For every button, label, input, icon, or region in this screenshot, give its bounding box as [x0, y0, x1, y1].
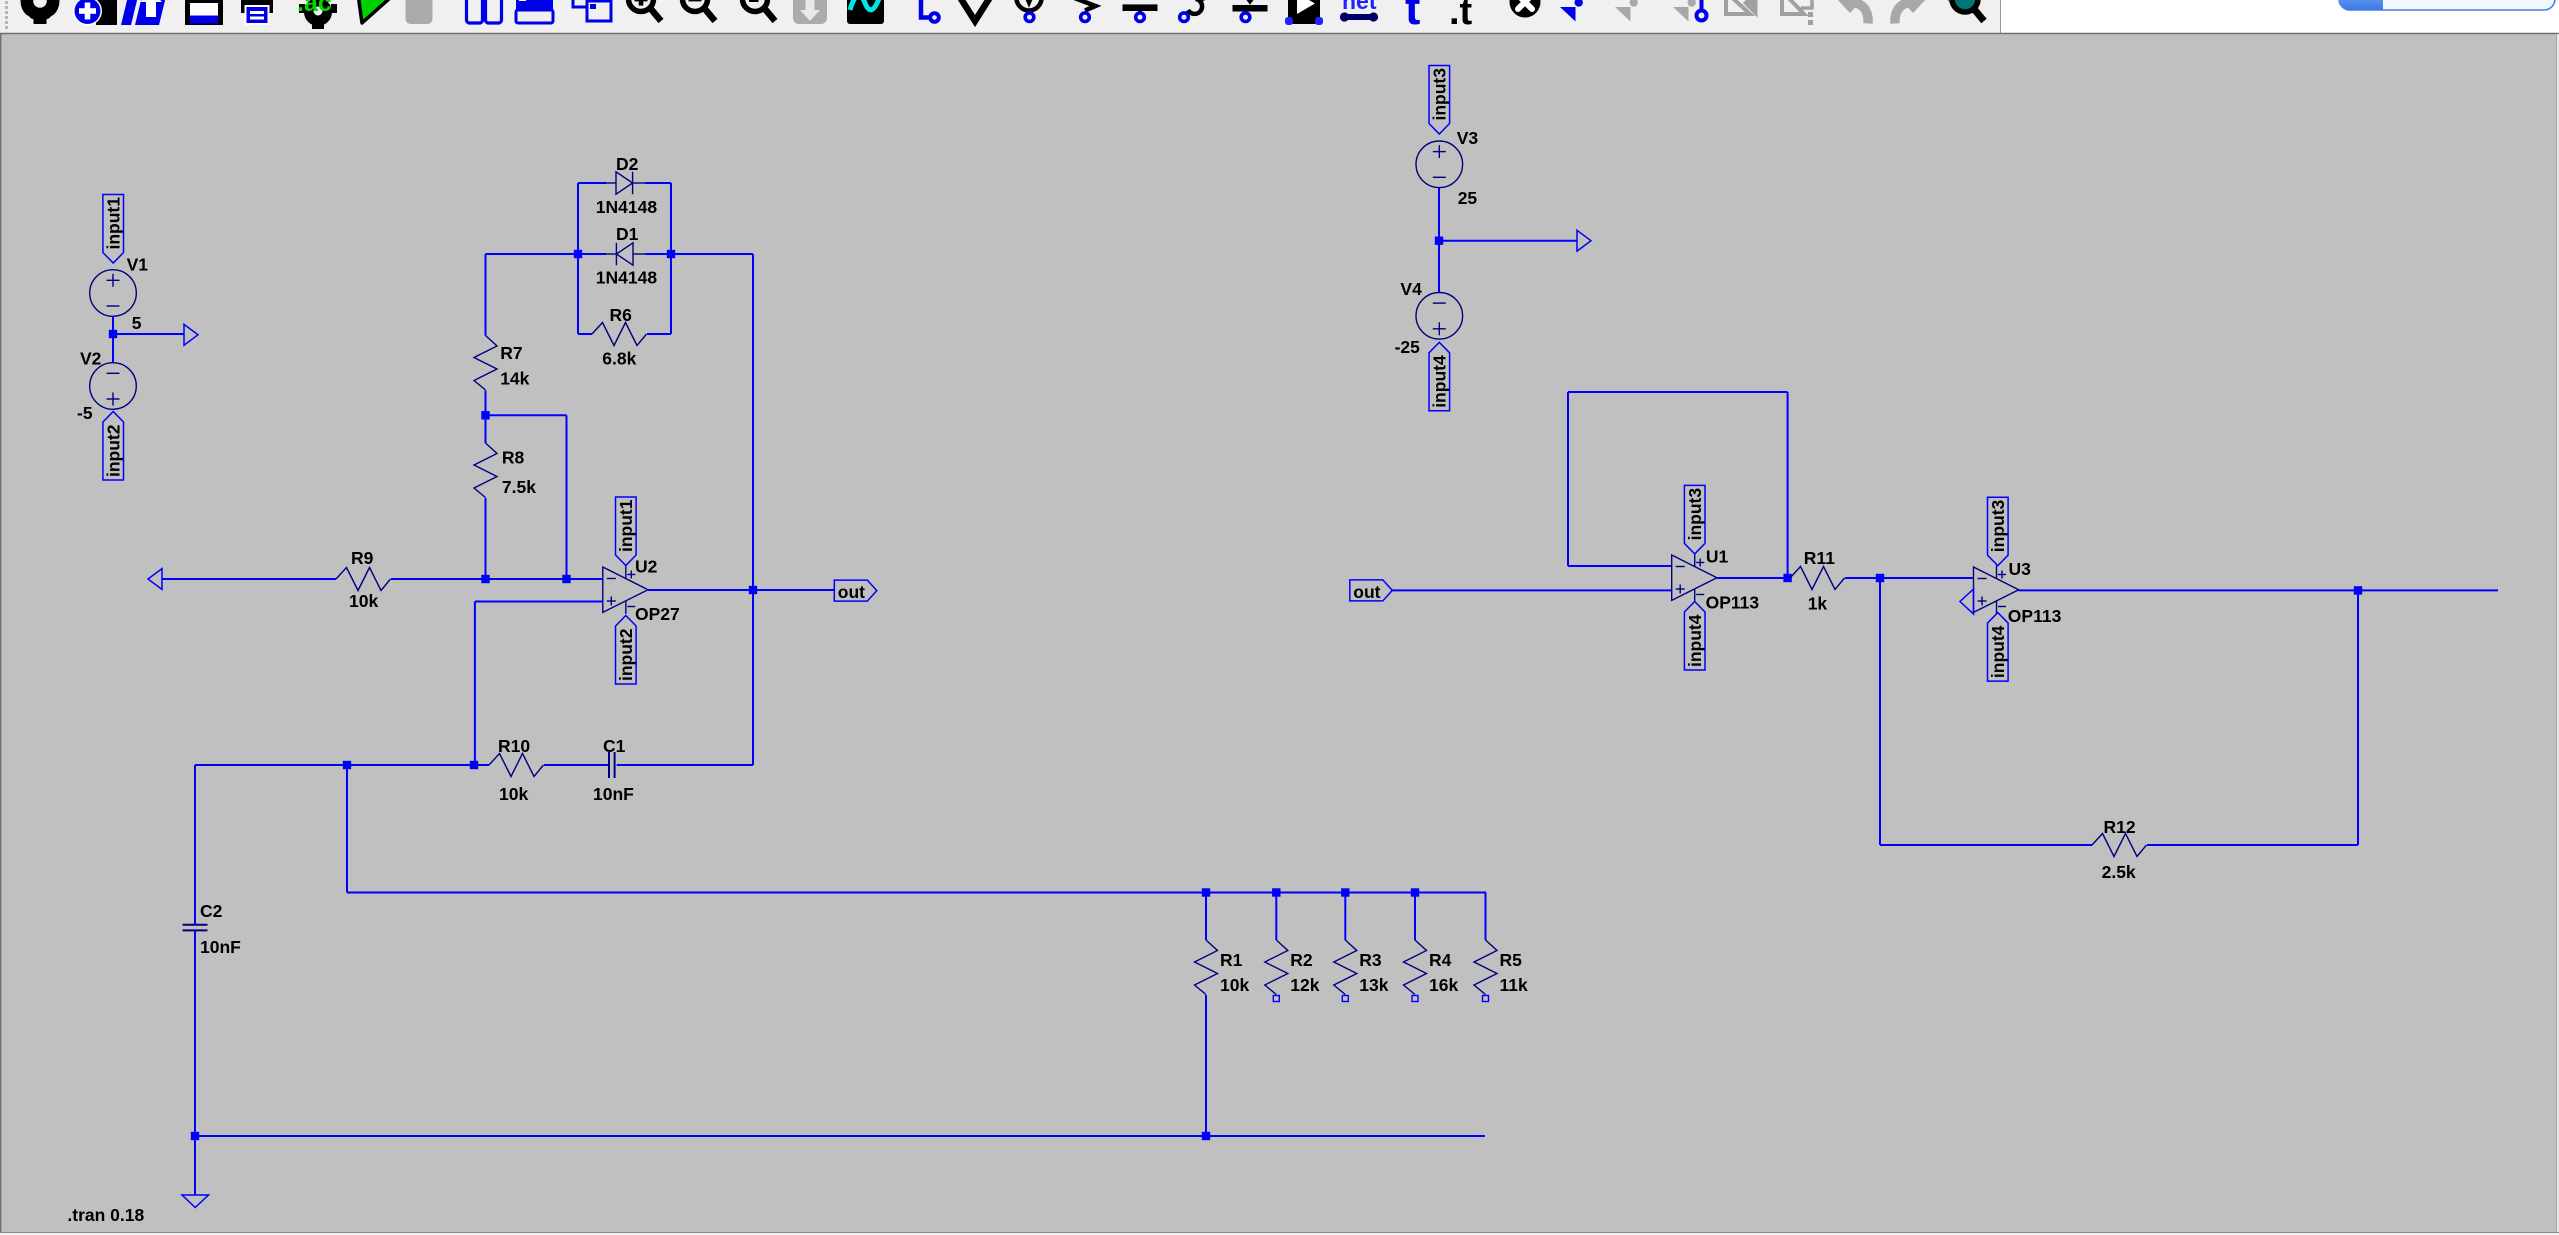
svg-text:16k: 16k — [1429, 975, 1458, 995]
wire V3- to V4- — [1438, 188, 1440, 292]
svg-text:input3: input3 — [1430, 68, 1450, 121]
wire R1 to bottom rail — [1205, 995, 1207, 1136]
svg-text:C2: C2 — [200, 901, 223, 921]
svg-text:R1: R1 — [1220, 950, 1243, 970]
svg-text:10nF: 10nF — [593, 784, 634, 804]
net flag input3 at V3 — [1429, 66, 1450, 135]
svg-text:U3: U3 — [2009, 559, 2032, 579]
svg-text:input4: input4 — [1430, 355, 1450, 408]
wire bypass vertical — [566, 415, 568, 579]
unconnected pin of R2 — [1273, 996, 1279, 1002]
svg-text:R2: R2 — [1290, 950, 1313, 970]
wire U3 output — [2019, 589, 2498, 591]
svg-text:R7: R7 — [500, 343, 522, 363]
port arrow right of V1 — [184, 324, 198, 345]
svg-text:.ac: .ac — [297, 0, 332, 17]
svg-text:R12: R12 — [2104, 817, 2136, 837]
svg-text:1N4148: 1N4148 — [596, 197, 658, 217]
svg-text:6.8k: 6.8k — [602, 349, 636, 369]
wire feedback up to U3 output — [2357, 590, 2359, 845]
wire feedback left — [1567, 392, 1569, 566]
junction D1 left — [574, 250, 582, 258]
junction R1 top — [1202, 888, 1210, 896]
resistor R1 — [1195, 940, 1218, 995]
svg-text:t: t — [1405, 0, 1420, 34]
svg-text:2.5k: 2.5k — [2102, 862, 2136, 882]
junction R3 top — [1341, 888, 1349, 896]
svg-text:1k: 1k — [1808, 593, 1828, 613]
svg-text:OP113: OP113 — [1706, 593, 1760, 613]
wire V1- to V2+ — [112, 316, 114, 363]
svg-text:out: out — [838, 582, 865, 602]
junction bypass bottom — [562, 575, 570, 583]
resistor R8 — [474, 443, 497, 498]
junction R8 bottom — [481, 575, 489, 583]
svg-text:.tran 0.18: .tran 0.18 — [67, 1205, 144, 1225]
junction U1 output/feedback — [1783, 574, 1791, 582]
unconnected pin of R3 — [1342, 996, 1348, 1002]
net flag input2 at V2 — [103, 412, 124, 481]
voltage source V2 — [90, 363, 137, 410]
svg-text:OP27: OP27 — [635, 604, 680, 624]
resistor R9 — [336, 568, 391, 591]
wire junction down — [346, 765, 348, 893]
capacitor C2 — [183, 925, 208, 931]
wire R7 to R8 — [485, 391, 487, 444]
wire node to bypass — [486, 414, 567, 416]
resistor R12 — [2092, 834, 2147, 857]
svg-text:D1: D1 — [616, 224, 639, 244]
ground symbol — [182, 1195, 209, 1208]
svg-text:V3: V3 — [1457, 128, 1479, 148]
net flag input4 at U3 V- — [1988, 613, 2009, 682]
junction D1 right — [667, 250, 675, 258]
wire arrow to R9 — [162, 578, 336, 580]
svg-text:R8: R8 — [502, 448, 525, 468]
resistor R5 — [1474, 940, 1497, 995]
svg-text:U2: U2 — [635, 557, 658, 577]
resistor R10 — [489, 754, 544, 777]
svg-text:V1: V1 — [127, 255, 149, 275]
wire out to U1 noninverting input — [1392, 589, 1672, 591]
svg-text:input4: input4 — [1685, 614, 1705, 667]
svg-text:R11: R11 — [1804, 548, 1835, 568]
svg-text:C1: C1 — [603, 736, 626, 756]
net flag input4 at U1 V- — [1684, 602, 1705, 671]
svg-text:10k: 10k — [1220, 975, 1249, 995]
wire D-loop to output branch — [671, 253, 753, 255]
wire to port arrow — [1439, 240, 1577, 242]
wire U1 inverting input — [1568, 565, 1672, 567]
svg-text:input3: input3 — [1685, 488, 1705, 541]
svg-text:7.5k: 7.5k — [502, 477, 536, 497]
wire from R6 — [647, 333, 671, 335]
svg-text:1N4148: 1N4148 — [596, 268, 658, 288]
junction U3 output — [2354, 586, 2362, 594]
wire to R5 — [1485, 893, 1487, 941]
wire down to R12 — [1879, 578, 1881, 845]
diode D1 — [604, 243, 646, 265]
svg-text:10k: 10k — [349, 591, 378, 611]
junction R1 bottom — [1202, 1132, 1210, 1140]
svg-text:-25: -25 — [1395, 337, 1421, 357]
wire R10 to C1 — [544, 764, 609, 766]
wire feedback top — [1568, 391, 1788, 393]
svg-text:14k: 14k — [500, 369, 529, 389]
wire U1 output — [1717, 577, 1790, 579]
resistor R4 — [1404, 940, 1427, 995]
diode D2 — [604, 172, 646, 194]
svg-text:10nF: 10nF — [200, 937, 241, 957]
status bar strip — [0, 1232, 2559, 1235]
unconnected pin of R4 — [1412, 996, 1418, 1002]
wire noninverting vertical — [474, 602, 476, 766]
toolbar grip — [5, 1, 8, 29]
svg-text:-5: -5 — [77, 403, 93, 423]
svg-text:12k: 12k — [1290, 975, 1319, 995]
wire to R2 — [1275, 893, 1277, 941]
net flag input1 at V1 — [103, 195, 124, 264]
toolbar icons — [19, 0, 1984, 34]
port arrow at U3 noninverting input — [1960, 589, 1974, 614]
wire output vertical — [752, 254, 754, 765]
net flag input2 at U2 V- — [616, 616, 637, 685]
net flag input1 at U2 V+ — [616, 497, 637, 566]
svg-text:R10: R10 — [498, 736, 530, 756]
svg-text:out: out — [1353, 582, 1380, 602]
wire middle rail — [347, 892, 1486, 894]
svg-text:.t: .t — [1449, 0, 1473, 33]
svg-text:R9: R9 — [351, 548, 374, 568]
wire C1 to output vertical — [617, 764, 753, 766]
svg-text:OP113: OP113 — [2008, 606, 2062, 626]
svg-text:input4: input4 — [1988, 625, 2008, 678]
wire feedback right — [1787, 392, 1789, 578]
svg-text:13k: 13k — [1359, 975, 1388, 995]
svg-text:U1: U1 — [1706, 547, 1729, 567]
net flag out (left circuit) — [834, 580, 877, 602]
wire D-loop to R7 — [486, 253, 579, 255]
op-amp U1 OP113 — [1672, 554, 1717, 602]
junction bottom rail — [191, 1132, 199, 1140]
op-amp U2 OP27 — [603, 566, 648, 614]
node between V1 and V2 — [109, 330, 117, 338]
svg-text:input2: input2 — [616, 628, 636, 681]
svg-text:net: net — [1342, 0, 1377, 14]
port arrow right of V3 — [1577, 230, 1591, 251]
junction R2 top — [1272, 888, 1280, 896]
wire R12 to output vertical — [2147, 844, 2358, 846]
svg-text:input1: input1 — [616, 499, 636, 552]
svg-text:input1: input1 — [103, 197, 123, 250]
svg-text:D2: D2 — [616, 154, 639, 174]
voltage source V3 — [1416, 141, 1463, 188]
svg-text:5: 5 — [132, 313, 142, 333]
svg-text:V2: V2 — [80, 349, 102, 369]
wire to R1 — [1205, 893, 1207, 941]
wire U2 output to out flag — [648, 589, 834, 591]
svg-text:R3: R3 — [1359, 950, 1382, 970]
wire C2 to ground — [194, 930, 196, 1195]
resistor R3 — [1334, 940, 1357, 995]
node R7/R8 — [481, 411, 489, 419]
svg-text:R4: R4 — [1429, 950, 1452, 970]
node between V3 and V4 — [1435, 237, 1443, 245]
svg-text:input2: input2 — [103, 424, 123, 477]
wire D2 anode — [578, 182, 606, 184]
D2 cathode wire — [645, 182, 671, 184]
wire to R12 — [1880, 844, 2092, 846]
wire to R6 — [578, 333, 592, 335]
voltage source V4 — [1416, 293, 1463, 340]
resistor R11 — [1790, 567, 1845, 590]
wire R9 to U2 inverting input — [391, 578, 603, 580]
junction to lower rail — [343, 761, 351, 769]
net flag input3 at U3 V+ — [1988, 497, 2009, 566]
svg-text:R6: R6 — [610, 305, 633, 325]
wire R11 to U3 inverting input — [1845, 577, 1974, 579]
wire D1 cathode — [578, 253, 606, 255]
svg-text:25: 25 — [1458, 188, 1478, 208]
wire R8 to inverting line — [485, 498, 487, 579]
svg-text:V4: V4 — [1400, 279, 1422, 299]
junction noninverting/R10 — [470, 761, 478, 769]
resistor R6 — [592, 323, 647, 346]
resistor R2 — [1265, 940, 1288, 995]
unconnected pin of R5 — [1483, 996, 1489, 1002]
wire U2 noninverting input — [475, 601, 603, 603]
voltage source V1 — [90, 270, 137, 317]
svg-text:10k: 10k — [499, 784, 528, 804]
resistor R7 — [474, 336, 497, 391]
junction R11/R12 — [1876, 574, 1884, 582]
toolbar background — [0, 0, 2000, 34]
port arrow left of R9 — [148, 569, 162, 590]
svg-text:11k: 11k — [1500, 975, 1528, 995]
wire to R4 — [1414, 893, 1416, 941]
wire right side of D-loop — [670, 183, 672, 334]
svg-text:R5: R5 — [1500, 950, 1523, 970]
wire bottom rail — [195, 1135, 1485, 1137]
wire left side of D-loop — [577, 183, 579, 334]
wire to R3 — [1344, 893, 1346, 941]
wire R10 row left — [195, 764, 489, 766]
wire D1 anode — [645, 253, 671, 255]
junction U2 output — [749, 586, 757, 594]
net flag input3 at U1 V+ — [1684, 485, 1705, 554]
net flag out (right circuit) — [1350, 580, 1393, 602]
junction R4 top — [1411, 888, 1419, 896]
wire to C2 — [194, 765, 196, 925]
op-amp U3 OP113 — [1974, 566, 2019, 614]
wire to R7 — [485, 254, 487, 336]
svg-text:input3: input3 — [1988, 499, 2008, 552]
capacitor C1 — [609, 752, 615, 778]
wire to port arrow — [113, 333, 184, 335]
net flag input4 at V4 — [1429, 342, 1450, 411]
